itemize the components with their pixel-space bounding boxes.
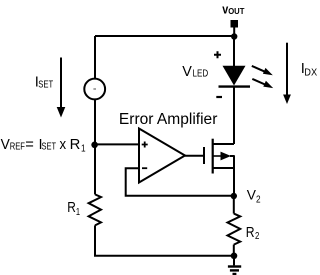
svg-text:1: 1 (81, 143, 86, 154)
current source I1 (84, 79, 105, 100)
wire V2 to R2 (233, 196, 235, 214)
node junction vOUT (231, 33, 237, 39)
arrow IDX (283, 43, 291, 104)
svg-text:x: x (60, 137, 67, 153)
svg-text:2: 2 (256, 195, 261, 206)
svg-text:R: R (67, 200, 76, 216)
label ISET (35, 74, 54, 90)
arrow light 1 (252, 66, 273, 75)
label VREF equation (1, 137, 86, 155)
svg-text:REF: REF (10, 142, 25, 153)
arrow light 2 (252, 79, 273, 88)
wire left rail middle (94, 99, 96, 194)
label plus LED (214, 51, 221, 58)
LED D1 (219, 66, 251, 87)
label minus LED (216, 96, 222, 98)
label V2 (247, 187, 261, 206)
wire left rail upper (94, 36, 96, 79)
node V2 (231, 193, 237, 199)
wire gate (185, 155, 204, 157)
wire top rail (95, 35, 234, 37)
label R1 (67, 200, 80, 218)
svg-text:V: V (182, 64, 192, 80)
wire plus input (95, 143, 139, 145)
svg-text:=: = (25, 137, 34, 153)
label R2 (246, 225, 260, 242)
op-amp U1 (139, 129, 185, 183)
node A junction (91, 142, 98, 149)
svg-text:LED: LED (193, 69, 209, 80)
svg-text:SET: SET (42, 142, 57, 153)
svg-text:OUT: OUT (228, 7, 244, 16)
label VLED (182, 64, 208, 80)
resistor R2 (228, 214, 241, 245)
wire right vertical anode (233, 36, 235, 67)
arrow ISET (57, 58, 66, 118)
ground (228, 256, 241, 274)
wire R2 to rail (233, 245, 235, 256)
wire minus input feedback (126, 168, 234, 196)
svg-text:R: R (70, 137, 81, 153)
resistor R1 (89, 194, 101, 225)
terminal vOUT (231, 20, 239, 36)
svg-text:DX: DX (304, 67, 317, 78)
transistor Q1 (204, 87, 234, 196)
node bottom junction (231, 253, 238, 260)
svg-text:V: V (1, 137, 10, 153)
svg-text:2: 2 (255, 231, 260, 242)
svg-text:R: R (246, 225, 255, 241)
wire left rail lower (95, 225, 234, 255)
svg-text:Error Amplifier: Error Amplifier (119, 111, 217, 128)
label IDX (301, 61, 317, 78)
label vOUT (222, 3, 244, 17)
svg-text:SET: SET (38, 80, 53, 91)
svg-text:1: 1 (76, 207, 80, 218)
